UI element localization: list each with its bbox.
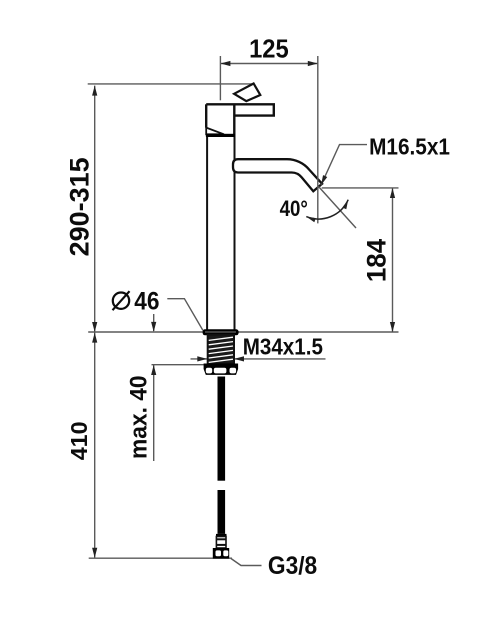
- wire: top reference line to handle: [88, 83, 254, 85]
- mounting nut: [204, 364, 239, 375]
- faucet body column: [207, 137, 234, 330]
- svg-text:max. 40: max. 40: [125, 375, 152, 459]
- wire: spout tip extension line: [317, 56, 319, 223]
- svg-text:M16.5x1: M16.5x1: [369, 133, 450, 159]
- hose end nut G3/8: [213, 548, 229, 559]
- faucet head bottom band: [206, 134, 235, 137]
- supply hose upper segment: [218, 377, 226, 481]
- node 290-315 dimension: [65, 86, 98, 332]
- wire: bottom baseline: [89, 557, 232, 559]
- node M34x1.5 label: [191, 333, 326, 361]
- faucet head chamfer wedge: [206, 128, 224, 135]
- faucet spout: [233, 159, 322, 191]
- node 125 dimension: [220, 34, 317, 100]
- svg-text:290-315: 290-315: [65, 157, 95, 256]
- svg-text:46: 46: [134, 287, 159, 316]
- faucet base collar: [203, 329, 239, 335]
- node 410 dimension: [66, 332, 98, 558]
- node 184 dimension: [322, 188, 399, 332]
- hose end striped cylinder: [216, 537, 226, 549]
- svg-text:410: 410: [66, 421, 92, 460]
- svg-text:184: 184: [361, 239, 392, 283]
- supply hose lower segment: [218, 490, 226, 534]
- node max40 dimension: [125, 314, 208, 461]
- svg-text:G3/8: G3/8: [268, 552, 317, 580]
- wire: mounting surface line: [88, 331, 398, 333]
- svg-text:125: 125: [249, 34, 289, 63]
- node M16.5x1 label: [321, 133, 450, 185]
- node G3/8 label: [231, 552, 317, 580]
- faucet head cap: [206, 104, 274, 137]
- node diameter46 label: [113, 287, 203, 330]
- threaded shank: [208, 335, 234, 364]
- svg-text:40°: 40°: [280, 198, 308, 222]
- svg-text:M34x1.5: M34x1.5: [243, 333, 323, 359]
- hose end collar: [216, 534, 227, 537]
- node 40deg angle: [280, 187, 356, 229]
- faucet handle lever: [234, 84, 260, 102]
